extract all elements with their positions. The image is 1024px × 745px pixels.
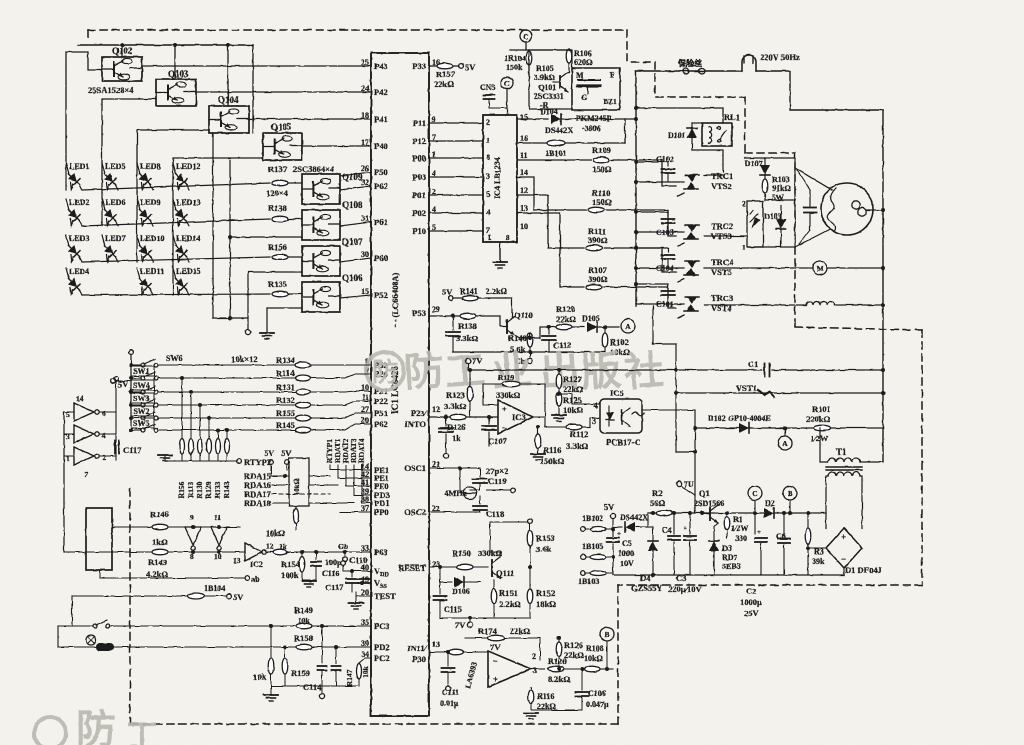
ground under tie rail — [270, 686, 272, 694]
capacitor on P53 node — [452, 316, 454, 330]
D102 row wire — [695, 427, 883, 429]
Q101 block outline box — [529, 50, 572, 109]
svg-text:RL1: RL1 — [724, 112, 740, 122]
wire TRC4 MT2 row to motor M terminal — [704, 267, 812, 269]
svg-text:PD2: PD2 — [374, 642, 390, 652]
svg-text:M: M — [576, 71, 584, 80]
wire Q106 to P52 — [340, 295, 371, 298]
svg-text:Q105: Q105 — [271, 122, 292, 132]
svg-text:P60: P60 — [374, 253, 388, 263]
resistor R157 22k — [437, 63, 453, 69]
pcb boundary dashed top edge — [88, 29, 627, 31]
resistor R131 row — [158, 391, 295, 393]
wire top rail of Q101 block — [510, 49, 569, 51]
svg-text:LED4: LED4 — [69, 267, 89, 276]
LED row 2 bus wire to R138 — [82, 219, 270, 226]
TEST pin20 wire with ground — [356, 595, 371, 597]
jack 1B101 oval — [547, 140, 565, 146]
wire Q110 emitter to output row — [514, 327, 556, 338]
svg-text:BZ1: BZ1 — [603, 97, 617, 106]
svg-text:R123: R123 — [446, 390, 465, 400]
svg-text:VTS2: VTS2 — [711, 181, 732, 191]
hex inverter input vertical — [63, 412, 65, 552]
svg-text:7U: 7U — [684, 480, 694, 489]
svg-text:14: 14 — [520, 168, 528, 177]
svg-text:R126: R126 — [564, 640, 583, 650]
svg-text:39k: 39k — [812, 557, 825, 566]
wire R145 to IC1 pin 20 — [311, 424, 371, 430]
LED row 1 bus wire to R137 — [82, 183, 270, 190]
svg-text:13: 13 — [432, 640, 440, 649]
svg-text:LED10: LED10 — [140, 234, 164, 243]
svg-text:15: 15 — [361, 287, 369, 296]
svg-text:A: A — [782, 439, 788, 448]
svg-text:TRC3: TRC3 — [711, 293, 733, 303]
svg-text:11: 11 — [520, 151, 528, 160]
inverter gate 1 triangle — [74, 403, 94, 421]
svg-text:防: 防 — [403, 349, 446, 396]
svg-text:PC2: PC2 — [374, 653, 390, 663]
svg-text:10k: 10k — [298, 616, 311, 625]
vertical from C101 node down — [652, 306, 654, 344]
capacitor C106 0.047u — [580, 667, 584, 671]
publisher watermark gray — [366, 349, 666, 396]
svg-text:C114: C114 — [303, 682, 322, 692]
svg-text:2SC3864×4: 2SC3864×4 — [293, 164, 335, 174]
svg-text:R131: R131 — [276, 382, 295, 392]
PD2 row wire to pin39 — [58, 646, 371, 648]
svg-text:9: 9 — [190, 513, 194, 522]
svg-text:5V: 5V — [233, 592, 244, 602]
resistor 10k vertical left — [269, 624, 273, 628]
svg-text:D106: D106 — [452, 587, 470, 596]
svg-text:91kΩ: 91kΩ — [772, 184, 791, 193]
network link wires from 10k box — [309, 475, 330, 477]
svg-text:56Ω: 56Ω — [650, 498, 666, 508]
svg-text:8: 8 — [486, 153, 490, 162]
svg-text:R120: R120 — [556, 304, 575, 314]
svg-text:- - (LC66408A): - - (LC66408A) — [390, 272, 400, 327]
circled C supply node top — [520, 30, 532, 42]
wire P33 pin16 — [429, 65, 437, 67]
resistor R116b 22k vertical — [510, 677, 531, 679]
svg-text:R116: R116 — [537, 692, 554, 701]
svg-text:LED5: LED5 — [105, 162, 125, 171]
wire R111 to TRC4 gate — [662, 248, 676, 272]
svg-text:P52: P52 — [374, 290, 388, 300]
IC2 inverter triangle — [245, 543, 262, 561]
svg-text:ab: ab — [251, 575, 260, 584]
svg-text:D3: D3 — [722, 544, 732, 553]
pcb boundary dashed right vertical of power area — [921, 330, 923, 585]
svg-text:P40: P40 — [374, 141, 388, 151]
svg-text:10k×12: 10k×12 — [231, 354, 258, 364]
transistor Q102 box — [102, 57, 142, 81]
svg-text:C117: C117 — [325, 582, 344, 592]
svg-text:R1: R1 — [733, 515, 743, 524]
7C stub terminal — [676, 481, 681, 486]
svg-text:15: 15 — [520, 113, 528, 122]
Q106 emitter return wire — [267, 307, 302, 309]
resistor R138b 3.3k on P53 row — [460, 313, 476, 319]
svg-text:D2: D2 — [765, 499, 775, 508]
svg-text:1: 1 — [742, 243, 746, 252]
transistor Q108 box — [302, 210, 340, 240]
svg-text:社: 社 — [623, 349, 666, 396]
capacitor C101 — [662, 290, 675, 292]
resistor on IN11 row — [449, 649, 464, 655]
top supply rail wire — [78, 44, 253, 46]
resistor R132 row — [158, 404, 295, 406]
svg-text:P01: P01 — [412, 190, 426, 200]
pcb boundary dashed top-left tick — [87, 30, 89, 40]
snubber box with lamp diodes — [747, 201, 763, 247]
svg-text:22kΩ: 22kΩ — [564, 650, 584, 660]
svg-text:1B102: 1B102 — [582, 514, 603, 523]
wire R127 junction to IC5 pin4 — [559, 394, 599, 404]
svg-text:B: B — [604, 630, 609, 639]
transistor Q103 box — [156, 79, 196, 106]
motor brushes — [852, 201, 860, 209]
svg-text:SW4: SW4 — [133, 381, 149, 390]
svg-text:R150: R150 — [452, 548, 471, 558]
svg-text:IN11⁄: IN11⁄ — [407, 643, 427, 653]
resistor R3 39k vertical — [806, 511, 810, 515]
door coil symbol row — [57, 626, 59, 647]
svg-text:R101: R101 — [812, 404, 831, 414]
RESET pin23 wire — [429, 566, 488, 568]
capacitor C107 — [487, 415, 491, 419]
svg-text:P42: P42 — [374, 87, 388, 97]
resistor R101 220k — [814, 425, 831, 431]
wire MT1 TRC1 to bus — [636, 161, 668, 163]
IC5 internal LED — [608, 406, 610, 426]
OSC2 pin22 wire — [429, 511, 480, 513]
wire rail to Q102 — [121, 45, 123, 57]
Cb terminal circle — [529, 352, 531, 357]
mains wire with fuse — [636, 70, 742, 72]
resistor R133 vertical — [216, 428, 220, 432]
svg-text:13: 13 — [233, 556, 241, 565]
resistor R145 row — [158, 429, 295, 431]
svg-text:R145: R145 — [276, 420, 295, 430]
wire R174 to op-amp top — [539, 638, 541, 660]
svg-text:10kΩ: 10kΩ — [563, 405, 583, 415]
svg-text:R149: R149 — [294, 605, 313, 615]
wire R107 row from IC4 pin13 — [517, 213, 584, 287]
resistor R110 150ohm — [588, 207, 604, 213]
svg-text:3.9kΩ: 3.9kΩ — [534, 73, 555, 82]
svg-text:1: 1 — [66, 454, 70, 463]
svg-text:18kΩ: 18kΩ — [536, 599, 556, 609]
wire TRC3 MT2 row with inductor — [704, 304, 806, 306]
svg-text:C1: C1 — [748, 359, 758, 369]
svg-text:12: 12 — [432, 405, 440, 414]
capacitor C4 pair — [672, 511, 676, 515]
wire Q103 to P42 — [196, 91, 371, 93]
osc right terminal — [480, 480, 498, 482]
svg-text:LED2: LED2 — [69, 198, 89, 207]
svg-text:2: 2 — [742, 199, 746, 208]
svg-text:Q101: Q101 — [538, 83, 556, 92]
resistor R156 vertical — [180, 376, 184, 380]
pull resistor common rail — [165, 460, 237, 462]
svg-text:T1: T1 — [836, 447, 847, 457]
svg-text:3: 3 — [66, 432, 70, 441]
power plug 220V — [742, 55, 756, 71]
svg-text:PCB17-C: PCB17-C — [606, 437, 640, 447]
resistor R107 390ohm — [586, 284, 602, 290]
svg-text:0.047μ: 0.047μ — [586, 700, 609, 709]
svg-text:C2: C2 — [746, 586, 756, 596]
1B104 jack row — [72, 595, 226, 597]
svg-text:C107: C107 — [488, 436, 508, 446]
Q108 emitter return wire — [230, 236, 302, 238]
capacitor C114a — [320, 624, 324, 628]
diode D107 — [764, 158, 766, 166]
svg-text:11: 11 — [214, 513, 221, 522]
resistor R108 10k — [584, 666, 600, 672]
pcb boundary dashed bottom edge — [130, 723, 618, 725]
C112 capacitor — [547, 325, 551, 329]
svg-text:D107: D107 — [745, 159, 763, 168]
svg-text:1000μ: 1000μ — [740, 597, 762, 607]
svg-text:G: G — [581, 93, 587, 102]
emitter bus vertical from Q105 area — [229, 160, 231, 318]
svg-text:SW5: SW5 — [133, 419, 149, 428]
svg-text:P11: P11 — [413, 118, 426, 128]
vertical to open terminal — [247, 272, 249, 329]
svg-text:150Ω: 150Ω — [592, 197, 612, 207]
svg-text:R141: R141 — [460, 287, 478, 296]
svg-text:SW1: SW1 — [133, 367, 149, 376]
svg-text:4: 4 — [102, 431, 106, 440]
resistor R152 18k vertical — [529, 567, 531, 588]
resistor R112 3.3k — [566, 424, 582, 430]
5V label at switch column — [111, 379, 116, 384]
svg-text:DS442X: DS442X — [545, 126, 573, 135]
svg-text:D101: D101 — [668, 131, 686, 140]
svg-text:5: 5 — [66, 410, 70, 419]
wire P23 INTO pin12 row — [429, 416, 497, 418]
svg-text:TRC4: TRC4 — [711, 257, 734, 267]
capacitor C1 inline — [764, 364, 766, 377]
wire R132 to IC1 pin 11 — [311, 401, 371, 405]
switch SW3 — [129, 403, 133, 407]
7V supply circle — [465, 358, 470, 363]
svg-text:LED14: LED14 — [176, 234, 200, 243]
svg-text:150k: 150k — [506, 63, 523, 72]
svg-text:8: 8 — [506, 234, 510, 242]
svg-text:IC5: IC5 — [610, 388, 624, 398]
wire Q110 collector to R141 — [511, 298, 513, 317]
svg-text:25V: 25V — [744, 608, 760, 618]
resistor R143 vertical — [225, 428, 229, 432]
svg-text:P50: P50 — [374, 167, 388, 177]
resistor R113 vertical — [189, 390, 193, 394]
svg-text:330: 330 — [735, 534, 747, 543]
wire Q104 output down to LED column 3 — [137, 130, 209, 163]
op-amp output wire — [531, 668, 545, 670]
circled B at output — [600, 627, 614, 641]
reset bottom rail — [440, 617, 530, 619]
svg-text:防: 防 — [372, 357, 398, 387]
T1 core lines — [826, 466, 862, 468]
svg-text:A: A — [625, 322, 631, 331]
resistor R2 56ohm — [656, 510, 672, 516]
link to power entry vertical — [676, 451, 695, 453]
svg-text:SW6: SW6 — [166, 354, 182, 363]
circled C output node — [748, 486, 762, 500]
svg-text:1B104: 1B104 — [204, 584, 225, 593]
interlock switch on PC3 row — [58, 625, 92, 627]
svg-text:P12: P12 — [412, 136, 426, 146]
wire MT1 TRC2 to bus — [636, 211, 668, 213]
svg-text:C: C — [752, 489, 757, 498]
wire R110 row from IC4 pin14 — [517, 177, 586, 210]
svg-text:C5: C5 — [622, 539, 632, 548]
inverter gate 3 triangle — [74, 447, 94, 465]
relay contacts inside RL1 — [718, 127, 721, 130]
svg-text:1⁄2W: 1⁄2W — [731, 524, 748, 533]
svg-text:INTO: INTO — [404, 419, 426, 429]
svg-text:5V: 5V — [264, 448, 275, 458]
transistor Q106 box — [302, 282, 340, 312]
svg-text:R143: R143 — [222, 481, 231, 498]
svg-text:P10: P10 — [412, 226, 426, 236]
wire Q107 to P60 — [340, 258, 371, 262]
svg-text:5V: 5V — [465, 62, 476, 72]
svg-text:LED13: LED13 — [176, 198, 200, 207]
T1 primary winding — [828, 458, 860, 462]
5V terminal circle at R157 — [459, 64, 464, 69]
switch SW5 — [129, 428, 133, 432]
svg-text:GZS55Y: GZS55Y — [631, 583, 663, 593]
svg-text:P43: P43 — [374, 61, 388, 71]
svg-text:0.01μ: 0.01μ — [440, 699, 459, 708]
svg-text:R108: R108 — [586, 644, 604, 653]
svg-text:+: + — [493, 674, 498, 684]
svg-text:R159: R159 — [291, 668, 310, 678]
wire motor to right vertical — [866, 208, 883, 210]
svg-text:LED7: LED7 — [105, 234, 125, 243]
resistor R126b 22k vertical — [557, 636, 561, 640]
svg-text:R155: R155 — [276, 408, 295, 418]
svg-text:LED8: LED8 — [140, 162, 160, 171]
svg-text:P30: P30 — [412, 654, 426, 664]
svg-text:R138: R138 — [268, 203, 287, 213]
svg-text:5V: 5V — [118, 379, 129, 389]
svg-text:−: − — [502, 424, 507, 433]
svg-text:220V 50Hz: 220V 50Hz — [760, 52, 800, 62]
svg-text:P63: P63 — [374, 547, 388, 557]
svg-text:OSC2: OSC2 — [404, 507, 426, 517]
pcb boundary dashed right step near buzzer — [627, 30, 655, 62]
diode DS442X power — [613, 526, 622, 528]
svg-text:10k: 10k — [253, 672, 267, 682]
svg-text:R174: R174 — [478, 626, 498, 636]
switch SW4 — [129, 390, 133, 394]
switch SW6 — [129, 363, 133, 367]
svg-text:2SC3331: 2SC3331 — [534, 92, 564, 101]
mains wire to right vertical — [756, 71, 883, 110]
pcb boundary dashed step to fuse area — [655, 62, 745, 97]
output stage ground rail — [531, 709, 582, 711]
motor armature squiggle — [827, 188, 836, 231]
LED column 4 vertical wire — [172, 163, 174, 295]
bottom tie rail — [271, 685, 359, 687]
svg-text:P62: P62 — [374, 181, 388, 191]
resistor R174 22k — [488, 635, 505, 641]
svg-text:1B103: 1B103 — [578, 577, 599, 586]
junction and circled A lower — [783, 426, 787, 430]
svg-text:2SD1566: 2SD1566 — [694, 499, 724, 508]
C117 supply caps pair — [344, 575, 346, 578]
feedback resistor 330k — [502, 381, 520, 387]
wire Q104 to P41 — [249, 118, 371, 120]
svg-text:10kΩ: 10kΩ — [293, 478, 301, 495]
svg-text:C115: C115 — [444, 605, 461, 614]
svg-text:P23⁄: P23⁄ — [411, 408, 428, 418]
triac TRC1 VTS2 — [687, 175, 697, 182]
svg-text:R153: R153 — [536, 533, 555, 543]
svg-text:7V: 7V — [455, 620, 466, 630]
relay RL1 box — [702, 123, 732, 146]
svg-text:5V: 5V — [281, 448, 292, 458]
svg-text:Q1: Q1 — [699, 488, 710, 498]
svg-text:D1 DF04J: D1 DF04J — [845, 565, 882, 575]
svg-text:R102: R102 — [610, 337, 629, 347]
svg-text:R̅E̅S̅E̅T̅: R̅E̅S̅E̅T̅ — [398, 563, 426, 573]
piezo element inside BZ1 — [578, 79, 600, 81]
svg-text:25SA1528×4: 25SA1528×4 — [88, 85, 134, 95]
relay top wire — [692, 122, 702, 124]
zener D4 GZS55Y — [651, 511, 655, 515]
T1 secondary leads to bridge — [826, 476, 828, 528]
VST1 trigger device symbol — [758, 390, 774, 397]
diode D105 — [587, 322, 597, 332]
buzzer BZ1 box — [572, 68, 620, 110]
svg-text:D104: D104 — [540, 107, 558, 116]
wires IC1 to IC4 — [429, 122, 483, 124]
svg-text:P51: P51 — [374, 408, 388, 418]
resistor R126 1k on pin12 row — [450, 414, 466, 420]
resistor R125 10k vertical — [556, 392, 562, 406]
Q107 emitter return wire — [248, 271, 302, 273]
inverter feedback vertical with terminal — [114, 377, 119, 382]
svg-text:12: 12 — [520, 186, 528, 195]
capacitor on pin12 node left — [444, 415, 448, 419]
capacitor C5 1000 10V — [612, 527, 614, 536]
svg-text:1000: 1000 — [618, 549, 634, 558]
svg-text:C118: C118 — [486, 509, 504, 519]
down inverter gate 9-8 — [185, 527, 201, 545]
transistor Q104 box — [209, 106, 249, 133]
resistor R159 vertical — [283, 645, 287, 649]
wire IC3 output to R112 and IC5 pin3 — [545, 417, 566, 427]
zener D3 RD7 5EB3 — [714, 523, 718, 540]
motor feed diagonals — [794, 158, 796, 168]
7V terminal below reset rail — [468, 616, 472, 620]
wire IC5 pin4 to D102 node vertical — [642, 409, 695, 411]
PP0 row wire — [361, 503, 363, 512]
svg-text:C106: C106 — [588, 689, 606, 698]
7V rail wire long to right — [467, 364, 469, 370]
svg-text:4: 4 — [486, 208, 490, 217]
transistor Q109 box — [302, 174, 340, 204]
svg-text:10k: 10k — [361, 665, 370, 678]
svg-text:Q108: Q108 — [342, 200, 363, 210]
